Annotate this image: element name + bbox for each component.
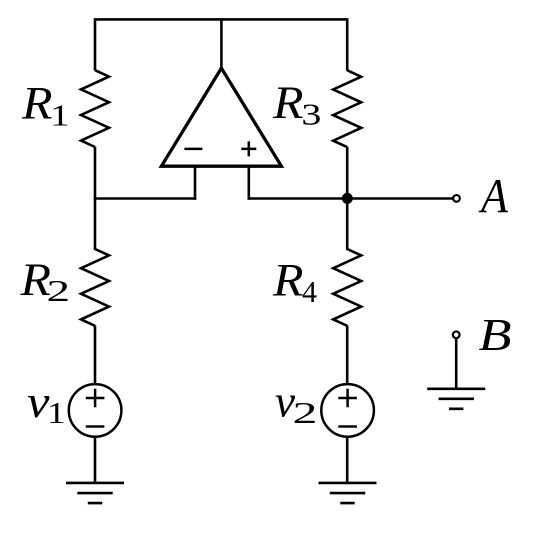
- svg-text:4: 4: [302, 274, 317, 309]
- wire: right vertical between R3 and R4 through node: [346, 147, 349, 250]
- wire: R2 to v1: [94, 326, 97, 385]
- node junction dot at A branch: [342, 193, 353, 204]
- terminal B open circle: [453, 331, 460, 338]
- voltage source v2: [321, 384, 374, 437]
- label R2: [19, 254, 70, 308]
- wire: terminal B to ground: [455, 339, 458, 389]
- resistor R3: [333, 70, 361, 147]
- ground under v2: [319, 483, 377, 503]
- svg-text:A: A: [478, 170, 508, 223]
- svg-text:1: 1: [50, 98, 69, 133]
- terminal A open circle: [453, 195, 460, 202]
- label R1: [21, 78, 70, 133]
- svg-text:R: R: [272, 77, 304, 129]
- wire: left vertical between R1 and R2 through node: [94, 147, 97, 250]
- wire: top rail with left and right drops to R1 and R3: [95, 19, 347, 70]
- wire: v1 to ground: [94, 436, 97, 483]
- op-amp U1: [161, 68, 281, 166]
- wire: inverting input lead: [194, 166, 197, 200]
- wire: left node horizontal to inverting input lead: [94, 197, 197, 200]
- wire: right node horizontal to terminal A: [248, 197, 453, 200]
- label v1: [27, 376, 66, 430]
- svg-text:R: R: [21, 78, 53, 130]
- svg-text:B: B: [479, 310, 512, 360]
- svg-text:2: 2: [293, 395, 318, 430]
- voltage source v1: [69, 384, 122, 437]
- ground at terminal B: [427, 389, 485, 409]
- label v2: [275, 376, 318, 431]
- wire: v2 to ground: [346, 436, 349, 483]
- svg-text:1: 1: [47, 395, 66, 430]
- label R4: [272, 255, 318, 310]
- resistor R4: [333, 249, 361, 326]
- resistor R1: [81, 70, 109, 147]
- svg-text:3: 3: [301, 97, 321, 132]
- label R3: [272, 77, 321, 132]
- ground under v1: [66, 483, 124, 503]
- svg-text:2: 2: [47, 273, 71, 308]
- wire: op-amp output to top rail: [220, 18, 223, 68]
- wire: non-inverting input lead: [248, 166, 251, 200]
- resistor R2: [81, 249, 109, 326]
- wire: R4 to v2: [346, 326, 349, 385]
- svg-text:R: R: [272, 255, 304, 307]
